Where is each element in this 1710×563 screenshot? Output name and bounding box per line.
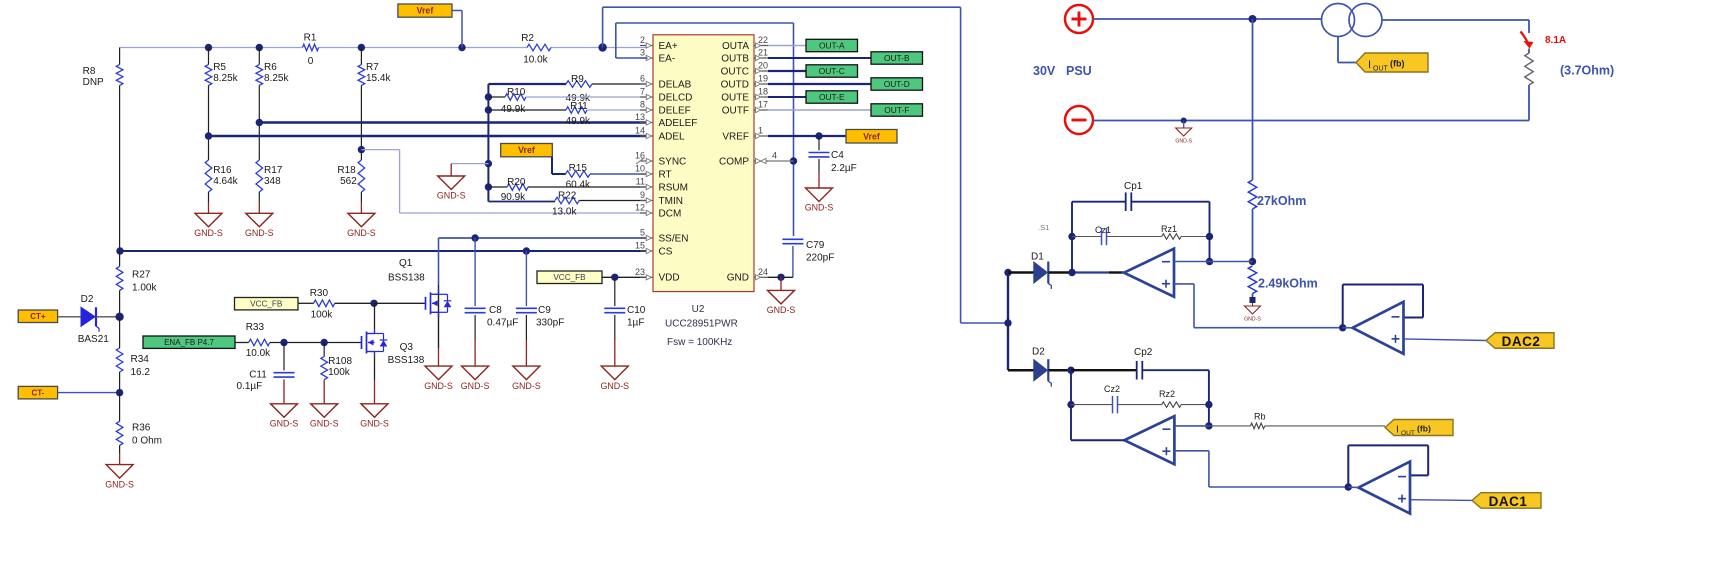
svg-text:ADELEF: ADELEF bbox=[659, 118, 698, 129]
node R6 / ADELEF bbox=[256, 119, 263, 126]
svg-text:OUT-C: OUT-C bbox=[819, 66, 845, 76]
svg-text:PSU: PSU bbox=[1066, 64, 1092, 78]
wire ADELEF net bbox=[259, 121, 647, 123]
wire CS net bbox=[120, 250, 648, 252]
wire CT- to column bbox=[58, 389, 124, 396]
svg-text:562: 562 bbox=[340, 176, 357, 187]
svg-text:CT-: CT- bbox=[31, 388, 44, 397]
svg-text:DELCD: DELCD bbox=[659, 92, 693, 103]
node divider tap bbox=[1249, 258, 1256, 265]
svg-text:Vref: Vref bbox=[417, 6, 434, 16]
resistor R6 bbox=[256, 48, 289, 123]
resistor R27 bbox=[116, 266, 157, 316]
svg-text:DELAB: DELAB bbox=[659, 79, 692, 90]
svg-text:R7: R7 bbox=[366, 62, 379, 73]
svg-text:Vref: Vref bbox=[518, 145, 535, 155]
svg-text:Cz2: Cz2 bbox=[1104, 384, 1120, 394]
svg-text:11: 11 bbox=[636, 177, 645, 187]
svg-text:GND-S: GND-S bbox=[437, 191, 466, 201]
wire D2 to column bbox=[96, 313, 124, 321]
wire fb2 left column bbox=[1070, 370, 1072, 440]
resistor R1 bbox=[303, 33, 319, 68]
pin 5 SS/EN bbox=[640, 228, 689, 245]
node opamp2 output bbox=[1067, 367, 1074, 374]
node fb1 cz tap left bbox=[1068, 233, 1075, 240]
pin 16 SYNC bbox=[635, 151, 686, 168]
svg-text:CT+: CT+ bbox=[30, 312, 46, 321]
svg-text:DCM: DCM bbox=[659, 208, 682, 219]
wire GND pin net bbox=[768, 274, 793, 291]
wire EA- to COMP loop bbox=[616, 23, 794, 236]
pin 7 DELCD bbox=[640, 87, 692, 104]
pin 17 OUTF bbox=[722, 100, 768, 117]
svg-text:OUTD: OUTD bbox=[721, 79, 749, 90]
svg-text:DNP: DNP bbox=[83, 77, 104, 88]
svg-text:OUT-E: OUT-E bbox=[819, 92, 845, 102]
resistor R18 bbox=[337, 150, 364, 214]
node - rail gnd tap bbox=[1181, 118, 1187, 124]
node EA+ / Vref tap bbox=[458, 44, 465, 51]
svg-text:R8: R8 bbox=[83, 66, 96, 77]
node D1 anode bbox=[1004, 269, 1011, 276]
svg-text:Cz1: Cz1 bbox=[1095, 225, 1111, 235]
wire D2 to node bbox=[1049, 369, 1072, 372]
capacitor C79 bbox=[782, 239, 834, 277]
capacitor C11 bbox=[237, 343, 295, 404]
svg-text:DAC2: DAC2 bbox=[1502, 334, 1541, 349]
wire OUT-A net bbox=[768, 45, 806, 47]
node fb2 rz tap right bbox=[1205, 401, 1212, 408]
ground GND-S under Q1 bbox=[424, 366, 453, 391]
pin 1 VREF bbox=[722, 126, 768, 143]
resistor Rb bbox=[1209, 412, 1385, 429]
port I_OUT(fb) (top) bbox=[1356, 53, 1428, 73]
svg-text:8.25k: 8.25k bbox=[213, 73, 238, 84]
svg-text:C10: C10 bbox=[627, 305, 646, 316]
svg-text:OUT: OUT bbox=[1373, 66, 1389, 73]
wire gnd column bbox=[487, 84, 489, 202]
wire VDD net bbox=[602, 276, 648, 278]
wire fb1 left column bbox=[1071, 202, 1073, 273]
PSU - terminal bbox=[1065, 106, 1093, 134]
resistor R7 bbox=[358, 48, 391, 150]
pin 3 EA- bbox=[640, 48, 675, 65]
resistor R20 bbox=[488, 177, 647, 203]
wire top rail down to diode node bbox=[961, 7, 1008, 323]
svg-text:GND-S: GND-S bbox=[512, 381, 541, 391]
svg-text:GND-S: GND-S bbox=[194, 228, 223, 238]
port CT- bbox=[18, 386, 57, 399]
wire load to - rail bbox=[1093, 85, 1529, 121]
svg-text:RT: RT bbox=[659, 169, 672, 180]
wire R30 to Q1 gate bbox=[374, 302, 426, 304]
node VDD / C10 tap bbox=[611, 274, 618, 281]
resistor R108 bbox=[321, 343, 353, 404]
node R5 / ADEL bbox=[205, 132, 212, 139]
svg-text:GND-S: GND-S bbox=[347, 228, 376, 238]
wire opamp1 minus input bbox=[1174, 261, 1253, 263]
svg-text:1: 1 bbox=[758, 126, 763, 136]
wire buffer1 plus to DAC1 bbox=[1410, 499, 1472, 502]
capacitor C9 bbox=[516, 251, 564, 366]
wire OUT-B net bbox=[768, 57, 871, 59]
svg-text:4.64k: 4.64k bbox=[213, 176, 238, 187]
svg-text:2: 2 bbox=[640, 35, 645, 45]
port DAC2 bbox=[1486, 333, 1554, 349]
port OUT-A bbox=[806, 39, 858, 51]
ground GND-S under R36 bbox=[105, 465, 134, 490]
svg-text:OUTC: OUTC bbox=[721, 66, 749, 77]
svg-text:0: 0 bbox=[308, 56, 314, 67]
svg-text:SYNC: SYNC bbox=[659, 156, 687, 167]
svg-text:VCC_FB: VCC_FB bbox=[250, 300, 283, 309]
svg-text:CS: CS bbox=[659, 246, 673, 257]
svg-text:Rz2: Rz2 bbox=[1159, 389, 1175, 399]
svg-text:C4: C4 bbox=[831, 150, 844, 161]
ground GND-S under C9 bbox=[512, 366, 541, 391]
wire buffer1 feedback bbox=[1348, 445, 1428, 487]
wire opamp2 minus input bbox=[1174, 425, 1209, 427]
svg-text:6: 6 bbox=[640, 74, 645, 84]
wire buffer2 plus to DAC2 bbox=[1404, 339, 1486, 341]
current arrow 8.1A bbox=[1521, 32, 1567, 49]
svg-text:27kOhm: 27kOhm bbox=[1257, 194, 1306, 208]
svg-text:16.2: 16.2 bbox=[131, 367, 151, 378]
svg-text:23: 23 bbox=[635, 267, 645, 277]
svg-text:5: 5 bbox=[640, 228, 645, 238]
node fb1 to minus input bbox=[1206, 258, 1213, 265]
node SS/EN / C8 tap bbox=[471, 234, 478, 241]
diode D1 bbox=[1031, 252, 1051, 290]
resistor R17 bbox=[256, 123, 283, 214]
port OUT-C bbox=[806, 65, 858, 77]
node EA+ / R5 top bbox=[205, 44, 212, 51]
PSU + terminal bbox=[1065, 5, 1093, 33]
svg-text:TMIN: TMIN bbox=[659, 196, 683, 207]
pin 23 VDD bbox=[635, 267, 680, 284]
svg-text:220pF: 220pF bbox=[806, 253, 834, 264]
ground GND-S under R17 bbox=[245, 213, 274, 238]
pin 12 DCM bbox=[635, 203, 681, 220]
node fb2 cz tap left bbox=[1067, 401, 1074, 408]
svg-text:R6: R6 bbox=[264, 62, 277, 73]
wire ADEL net bbox=[209, 135, 648, 137]
svg-text:Cp1: Cp1 bbox=[1124, 181, 1143, 192]
pin 13 ADELEF bbox=[635, 112, 697, 129]
svg-text:R36: R36 bbox=[132, 423, 151, 434]
svg-text:14: 14 bbox=[635, 126, 645, 136]
svg-text:(fb): (fb) bbox=[1390, 59, 1405, 69]
svg-text:VDD: VDD bbox=[659, 273, 680, 284]
port OUT-F bbox=[871, 104, 923, 116]
wire left column to CS bbox=[116, 247, 123, 266]
svg-text:DAC1: DAC1 bbox=[1489, 494, 1528, 509]
ground GND-S (PSU -) bbox=[1175, 121, 1192, 145]
wire fb2 right column bbox=[1208, 370, 1210, 426]
node gnd column / R20 bbox=[485, 183, 492, 190]
wire + rail bbox=[1093, 18, 1322, 20]
diode D2 BAS21 bbox=[78, 294, 110, 345]
node EA+ / R6 top bbox=[256, 44, 263, 51]
port DAC1 bbox=[1472, 493, 1541, 509]
capacitor Cz2 bbox=[1071, 384, 1162, 413]
svg-text:D2: D2 bbox=[81, 294, 94, 305]
svg-text:1µF: 1µF bbox=[627, 318, 644, 329]
svg-text:Rb: Rb bbox=[1254, 412, 1266, 422]
op-amp buffer B1 bbox=[1348, 462, 1410, 514]
port ENA_FB P4.7 bbox=[143, 336, 235, 348]
svg-text:GND-S: GND-S bbox=[767, 305, 796, 315]
wire DELAB net bbox=[488, 74, 647, 104]
svg-text:Q3: Q3 bbox=[400, 342, 414, 353]
resistor R34 bbox=[116, 317, 150, 393]
svg-text:8.1A: 8.1A bbox=[1545, 35, 1566, 46]
wire opamp2 output to node bbox=[1071, 439, 1124, 441]
svg-text:GND-S: GND-S bbox=[1244, 317, 1261, 323]
node fb2 to minus input bbox=[1205, 422, 1212, 429]
svg-text:UCC28951PWR: UCC28951PWR bbox=[665, 319, 738, 330]
svg-text:13: 13 bbox=[635, 112, 645, 122]
wire EA+ to top rail bbox=[603, 7, 961, 47]
node + rail / divider bbox=[1249, 15, 1257, 23]
node COMP junction bbox=[790, 157, 797, 164]
wire current source to load bbox=[1382, 20, 1529, 33]
svg-text:R10: R10 bbox=[507, 87, 526, 98]
port OUT-E bbox=[806, 91, 858, 103]
svg-text:10: 10 bbox=[635, 164, 645, 174]
wire OUT-E net bbox=[768, 96, 806, 98]
svg-text:OUTA: OUTA bbox=[722, 41, 749, 52]
svg-text:8.25k: 8.25k bbox=[264, 73, 289, 84]
svg-text:49.9k: 49.9k bbox=[566, 116, 591, 127]
svg-text:100k: 100k bbox=[328, 367, 351, 378]
svg-text:R30: R30 bbox=[310, 288, 329, 299]
wire VREF net bbox=[768, 135, 846, 137]
wire OUT-F net bbox=[768, 109, 871, 111]
svg-text:SS/EN: SS/EN bbox=[659, 233, 689, 244]
wire divider top bbox=[1252, 19, 1254, 180]
svg-text:R15: R15 bbox=[569, 163, 588, 174]
wire OUT-D net bbox=[768, 83, 871, 85]
svg-text:19: 19 bbox=[758, 74, 768, 84]
pin 6 DELAB bbox=[640, 74, 692, 91]
svg-text:GND-S: GND-S bbox=[310, 419, 339, 429]
wire buffer2 feedback bbox=[1343, 285, 1423, 328]
node EA+ / R7 top bbox=[358, 44, 365, 51]
pin 9 TMIN bbox=[640, 190, 683, 207]
svg-text:C8: C8 bbox=[489, 305, 502, 316]
label 30V PSU bbox=[1033, 64, 1092, 78]
ground GND-S (gnd column) bbox=[437, 176, 466, 201]
resistor Rz1 bbox=[1161, 224, 1210, 239]
svg-text:OUT-B: OUT-B bbox=[884, 53, 910, 63]
svg-text:R108: R108 bbox=[328, 356, 352, 367]
svg-text:R33: R33 bbox=[246, 322, 265, 333]
svg-text:2.49kOhm: 2.49kOhm bbox=[1258, 277, 1318, 291]
svg-text:OUT-D: OUT-D bbox=[884, 79, 910, 89]
svg-text:10.0k: 10.0k bbox=[523, 55, 548, 66]
svg-text:R34: R34 bbox=[131, 354, 150, 365]
pin 15 CS bbox=[635, 241, 673, 258]
svg-text:3: 3 bbox=[640, 48, 645, 58]
svg-text:21: 21 bbox=[758, 48, 768, 58]
svg-text:22: 22 bbox=[758, 35, 768, 45]
svg-text:4: 4 bbox=[772, 151, 777, 161]
wire diode column bbox=[1007, 273, 1009, 371]
svg-text:U2: U2 bbox=[692, 304, 705, 315]
svg-text:R20: R20 bbox=[507, 177, 526, 188]
power label VCC_FB (at VDD) bbox=[537, 271, 602, 284]
node buffer1 output bbox=[1345, 483, 1352, 490]
node fb1 rz tap right bbox=[1206, 233, 1213, 240]
port I_OUT(fb) (lower) bbox=[1385, 420, 1453, 438]
node R30 / Q3 drain bbox=[370, 300, 377, 307]
capacitor C8 bbox=[465, 238, 519, 366]
capacitor Cz1 bbox=[1072, 225, 1162, 245]
svg-text:OUT-F: OUT-F bbox=[884, 105, 909, 115]
ground GND-S under Q3 bbox=[360, 404, 389, 429]
svg-text:DELEF: DELEF bbox=[659, 105, 691, 116]
svg-text:100k: 100k bbox=[311, 310, 334, 321]
svg-text:348: 348 bbox=[264, 176, 281, 187]
svg-text:C9: C9 bbox=[538, 305, 551, 316]
svg-text:17: 17 bbox=[758, 100, 768, 110]
wire OUT-C net bbox=[768, 70, 806, 72]
op-amp buffer B2 bbox=[1343, 302, 1404, 354]
port OUT-D bbox=[871, 78, 923, 90]
svg-text:OUT-A: OUT-A bbox=[819, 40, 845, 50]
svg-text:Q1: Q1 bbox=[399, 258, 413, 269]
svg-text:30V: 30V bbox=[1033, 64, 1056, 78]
svg-text:13.0k: 13.0k bbox=[552, 207, 577, 218]
svg-text:R11: R11 bbox=[570, 101, 588, 112]
svg-text:I: I bbox=[1368, 59, 1371, 71]
node R33 / R108 bbox=[321, 339, 328, 346]
pin 21 OUTB bbox=[721, 48, 768, 65]
svg-text:60.4k: 60.4k bbox=[566, 180, 591, 191]
pin 11 RSUM bbox=[636, 177, 688, 194]
resistor R36 bbox=[116, 393, 162, 465]
svg-text:GND: GND bbox=[727, 273, 749, 284]
svg-text:ADEL: ADEL bbox=[659, 131, 686, 142]
wire DCM net bbox=[361, 150, 647, 213]
svg-text:GND-S: GND-S bbox=[424, 381, 453, 391]
node CS / C9 tap bbox=[523, 247, 530, 254]
ground GND-S under R18 bbox=[347, 213, 376, 238]
svg-text:Vref: Vref bbox=[863, 131, 880, 141]
node gnd column / R11 bbox=[485, 106, 492, 113]
pin 14 ADEL bbox=[635, 126, 685, 143]
capacitor C4 bbox=[809, 136, 857, 188]
svg-text:EA+: EA+ bbox=[659, 41, 678, 52]
capacitor C10 bbox=[604, 277, 645, 366]
node buffer2 output bbox=[1339, 324, 1346, 331]
wire to D2 bbox=[1008, 369, 1034, 372]
resistor R33 bbox=[235, 322, 362, 359]
svg-text:ENA_FB P4.7: ENA_FB P4.7 bbox=[164, 338, 214, 347]
node R7 / DCM tap bbox=[358, 146, 365, 153]
svg-text:9: 9 bbox=[640, 190, 645, 200]
wire CT+ to D2 bbox=[58, 316, 81, 318]
resistor load 3.7Ohm bbox=[1525, 49, 1614, 86]
resistor R11 bbox=[488, 101, 647, 127]
ground GND-S under C10 bbox=[600, 366, 629, 391]
label .S1 bbox=[1038, 223, 1049, 232]
svg-text:OUTF: OUTF bbox=[722, 105, 749, 116]
pin 8 DELEF bbox=[640, 100, 691, 117]
node gnd column / R10 bbox=[485, 93, 492, 100]
svg-text:0.47µF: 0.47µF bbox=[487, 318, 518, 329]
resistor R8 (DNP) bbox=[83, 48, 123, 252]
svg-text:RSUM: RSUM bbox=[659, 182, 688, 193]
node VREF / C4 bbox=[815, 132, 822, 139]
svg-text:R18: R18 bbox=[337, 165, 356, 176]
wire SS/EN net bbox=[439, 237, 648, 239]
wire GND tap bbox=[451, 164, 488, 176]
svg-text:18: 18 bbox=[758, 87, 768, 97]
pin 4 COMP bbox=[719, 151, 777, 168]
capacitor Cp2 bbox=[1071, 347, 1209, 380]
pin 20 OUTC bbox=[721, 61, 768, 78]
svg-text:I: I bbox=[1396, 424, 1399, 436]
svg-text:D2: D2 bbox=[1032, 347, 1045, 358]
svg-text:GND-S: GND-S bbox=[270, 419, 299, 429]
svg-text:OUT: OUT bbox=[1401, 430, 1415, 437]
svg-text:1.00k: 1.00k bbox=[132, 283, 157, 294]
port CT+ bbox=[18, 310, 57, 323]
wire I_OUT tap bbox=[1338, 37, 1356, 63]
resistor R22 bbox=[488, 191, 647, 218]
resistor R10 bbox=[488, 87, 647, 115]
resistor 27kOhm bbox=[1248, 180, 1306, 262]
svg-text:15.4k: 15.4k bbox=[366, 73, 391, 84]
wire fb1 right column bbox=[1209, 202, 1211, 262]
pin 22 OUTA bbox=[722, 35, 768, 52]
wire COMP stub bbox=[768, 160, 794, 162]
wire opamp1 plus input bbox=[1174, 284, 1343, 328]
svg-text:GND-S: GND-S bbox=[245, 228, 274, 238]
svg-text:15: 15 bbox=[635, 241, 645, 251]
svg-text:OUTB: OUTB bbox=[721, 53, 749, 64]
transistor Q3 BSS138 bbox=[362, 303, 425, 404]
svg-text:BAS21: BAS21 bbox=[78, 334, 110, 345]
svg-text:Rz1: Rz1 bbox=[1161, 224, 1177, 234]
wire D1 to opamp1 bbox=[1049, 271, 1125, 274]
resistor R2 bbox=[521, 33, 551, 66]
svg-text:(fb): (fb) bbox=[1417, 424, 1431, 434]
transistor Q1 BSS138 bbox=[388, 238, 451, 366]
resistor 2.49kOhm bbox=[1248, 266, 1317, 303]
node gnd column / GND tap bbox=[485, 160, 492, 167]
svg-text:.S1: .S1 bbox=[1038, 223, 1049, 232]
svg-text:VCC_FB: VCC_FB bbox=[553, 273, 586, 282]
svg-text:8: 8 bbox=[640, 100, 645, 110]
resistor R16 bbox=[205, 136, 238, 213]
node R33 / C11 bbox=[280, 339, 287, 346]
resistor R30 bbox=[298, 288, 374, 321]
svg-text:Fsw = 100KHz: Fsw = 100KHz bbox=[667, 337, 732, 348]
wire Vref to R15 bbox=[552, 157, 566, 174]
svg-text:COMP: COMP bbox=[719, 156, 749, 167]
pin 24 GND bbox=[727, 267, 768, 284]
port OUT-B bbox=[871, 52, 923, 64]
svg-text:R27: R27 bbox=[132, 270, 151, 281]
op-amp U2 UCC28951PWR body bbox=[653, 35, 754, 348]
ground GND-S under C11 bbox=[270, 404, 299, 429]
svg-text:R2: R2 bbox=[521, 33, 534, 44]
svg-text:R9: R9 bbox=[571, 74, 584, 85]
svg-text:C79: C79 bbox=[806, 240, 825, 251]
